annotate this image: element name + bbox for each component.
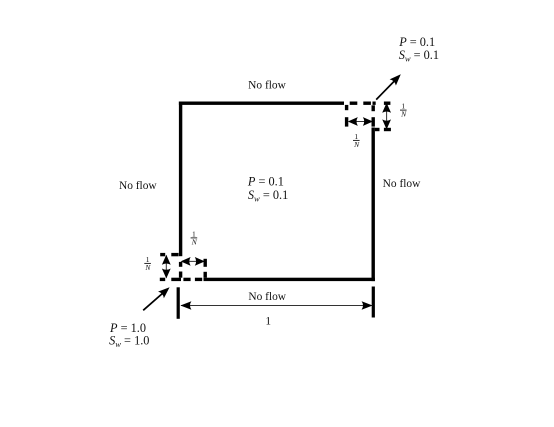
svg-text:N: N bbox=[191, 237, 198, 246]
svg-text:N: N bbox=[400, 110, 407, 119]
svg-text:Sw = 1.0: Sw = 1.0 bbox=[109, 333, 149, 349]
svg-text:N: N bbox=[144, 263, 151, 272]
svg-text:No flow: No flow bbox=[119, 180, 157, 192]
svg-text:P = 0.1: P = 0.1 bbox=[398, 35, 435, 49]
svg-text:P = 0.1: P = 0.1 bbox=[247, 175, 284, 189]
svg-text:Sw = 0.1: Sw = 0.1 bbox=[399, 48, 439, 64]
svg-text:No flow: No flow bbox=[248, 80, 286, 92]
svg-text:N: N bbox=[353, 140, 360, 149]
svg-text:1: 1 bbox=[265, 316, 271, 328]
svg-text:Sw = 0.1: Sw = 0.1 bbox=[248, 188, 288, 204]
svg-text:No flow: No flow bbox=[383, 178, 421, 190]
svg-text:No flow: No flow bbox=[248, 291, 286, 303]
